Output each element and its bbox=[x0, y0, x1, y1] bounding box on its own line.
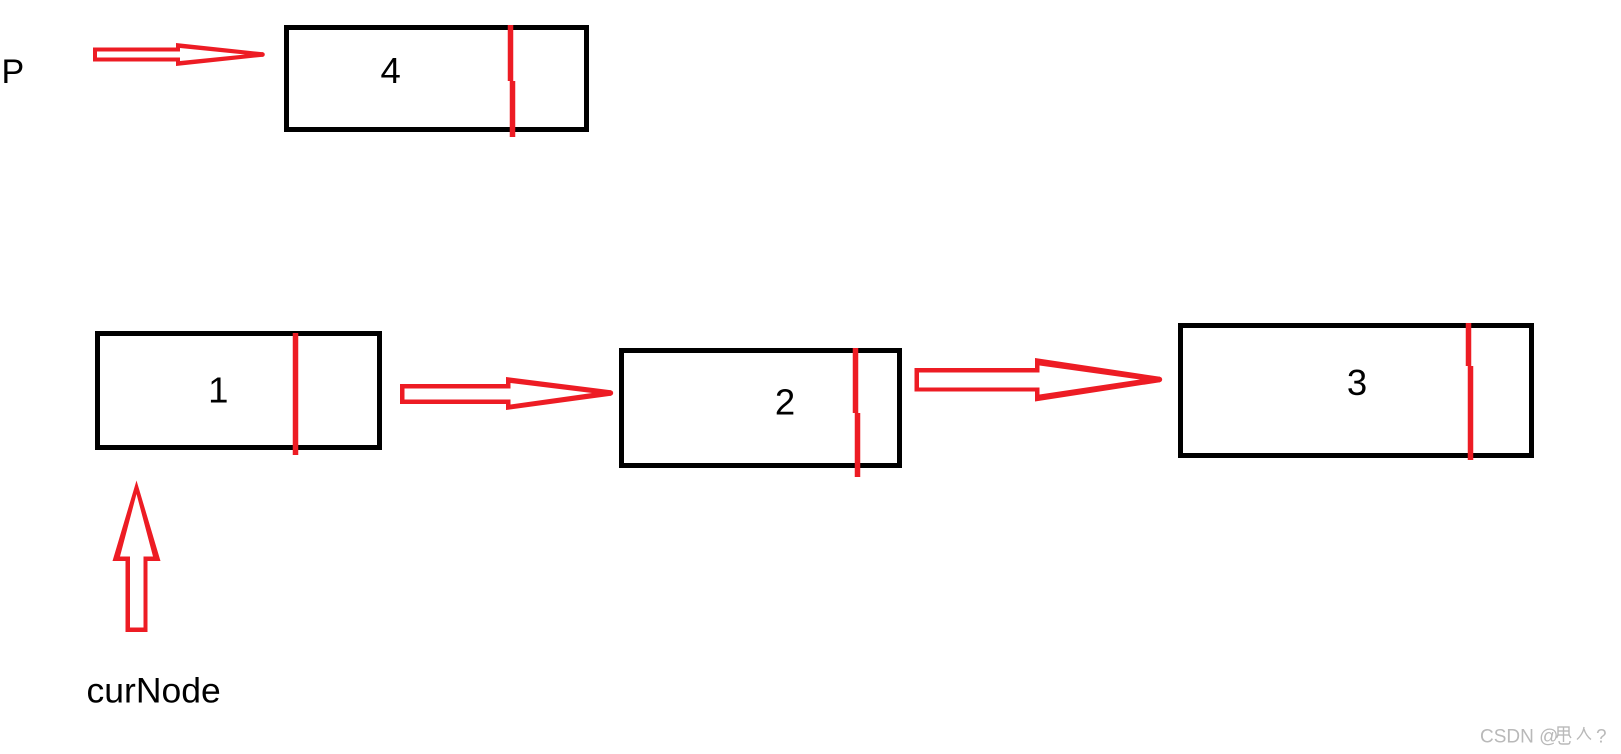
svg-text:3: 3 bbox=[1347, 362, 1367, 403]
svg-text:curNode: curNode bbox=[87, 670, 221, 710]
svg-text:1: 1 bbox=[208, 369, 228, 410]
svg-text:P: P bbox=[2, 53, 25, 91]
svg-text:2: 2 bbox=[775, 382, 795, 423]
svg-text:4: 4 bbox=[381, 50, 401, 91]
svg-text:?: ? bbox=[1596, 727, 1607, 748]
svg-text:CSDN @: CSDN @ bbox=[1480, 727, 1558, 748]
